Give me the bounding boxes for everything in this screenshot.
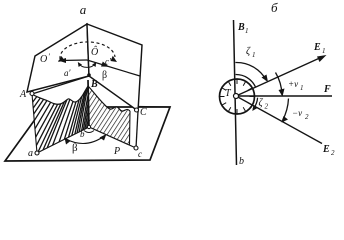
back edge of bottom plane (visible part right of plane) bbox=[138, 106, 170, 109]
svg-text:b: b bbox=[80, 129, 85, 139]
line A-B (fracture meets left plane) bbox=[32, 76, 89, 94]
svg-text:1: 1 bbox=[300, 84, 304, 92]
svg-text:β: β bbox=[102, 70, 107, 81]
svg-text:O: O bbox=[40, 54, 47, 65]
svg-text:2: 2 bbox=[305, 113, 309, 121]
node at T center bbox=[234, 94, 239, 99]
svg-text:B: B bbox=[90, 79, 98, 90]
point c bbox=[134, 146, 138, 150]
svg-text:c: c bbox=[138, 149, 142, 159]
svg-text:b: b bbox=[239, 156, 244, 167]
zeta1 inner arc bbox=[236, 74, 256, 87]
line and arrow c' from vertex O to right plane bbox=[87, 60, 140, 76]
tick-marked circle around T bbox=[220, 79, 255, 114]
point b and small arc bbox=[87, 125, 90, 128]
zeta2 arc below F bbox=[252, 98, 257, 111]
svg-text:1: 1 bbox=[252, 51, 256, 59]
zeta1 outer arc with arrow bbox=[235, 62, 268, 82]
svg-text:β: β bbox=[72, 142, 78, 154]
right wavy fracture edge ridge to right bbox=[88, 86, 130, 111]
svg-text:ζ: ζ bbox=[246, 46, 251, 57]
ray E2 bbox=[236, 96, 335, 157]
svg-text:б: б bbox=[271, 0, 278, 15]
point a bbox=[35, 151, 39, 155]
svg-text:+v: +v bbox=[288, 79, 298, 89]
fracture trace line b-c on plane P bbox=[89, 127, 136, 148]
svg-text:E: E bbox=[313, 42, 321, 53]
fracture trace line a-b on plane P bbox=[37, 127, 89, 153]
edge A-a (left boundary of fracture surface) bbox=[32, 94, 37, 153]
left wavy fracture edge A to ridge bbox=[32, 86, 88, 104]
bottom plane P (horizontal parallelogram) bbox=[5, 107, 170, 161]
svg-text:1: 1 bbox=[245, 27, 249, 35]
svg-text:B: B bbox=[237, 22, 245, 33]
svg-text:2: 2 bbox=[331, 149, 335, 157]
svg-text:c′: c′ bbox=[105, 57, 112, 67]
right edge of right fracture surface bbox=[129, 111, 132, 145]
left vertical plane O' bbox=[27, 24, 89, 92]
vertical axis B1-b bbox=[234, 20, 237, 165]
ridge line B-b (edge of dihedral continued) bbox=[88, 80, 89, 127]
svg-text:а: а bbox=[80, 2, 87, 17]
ray E1 bbox=[236, 42, 327, 96]
svg-text:Ô: Ô bbox=[91, 46, 98, 58]
svg-text:1: 1 bbox=[322, 47, 326, 55]
+v1 arc between E1 and F bbox=[276, 73, 285, 97]
-v2 arc between F and E2 bbox=[282, 99, 289, 123]
svg-text:C: C bbox=[140, 107, 147, 118]
arrow a' from vertex O bbox=[58, 58, 87, 63]
point B bbox=[87, 73, 91, 77]
beta arc on plane P bbox=[65, 134, 107, 145]
svg-text:A: A bbox=[19, 89, 27, 100]
svg-text:F: F bbox=[323, 84, 331, 95]
dashed arc of dihedral angle O (a'Oc') bbox=[58, 42, 117, 62]
point A bbox=[30, 92, 34, 96]
small angle arc below vertex O (with arrows) bbox=[78, 62, 96, 67]
left hatched fracture surface bbox=[0, 84, 90, 195]
right vertical plane bbox=[87, 24, 142, 111]
svg-text:T: T bbox=[225, 88, 232, 99]
svg-text:a: a bbox=[28, 148, 33, 159]
right hatched fracture surface bbox=[88, 86, 130, 145]
svg-text:P: P bbox=[113, 146, 120, 157]
svg-text:E: E bbox=[322, 144, 330, 155]
svg-text:′: ′ bbox=[48, 52, 50, 61]
right plane edge below C down to c bbox=[136, 111, 138, 148]
ray F bbox=[236, 84, 332, 96]
point C bbox=[135, 108, 139, 112]
svg-text:−v: −v bbox=[292, 108, 302, 118]
svg-text:a′: a′ bbox=[64, 68, 72, 78]
svg-text:2: 2 bbox=[265, 103, 269, 111]
svg-text:ζ: ζ bbox=[259, 98, 264, 109]
